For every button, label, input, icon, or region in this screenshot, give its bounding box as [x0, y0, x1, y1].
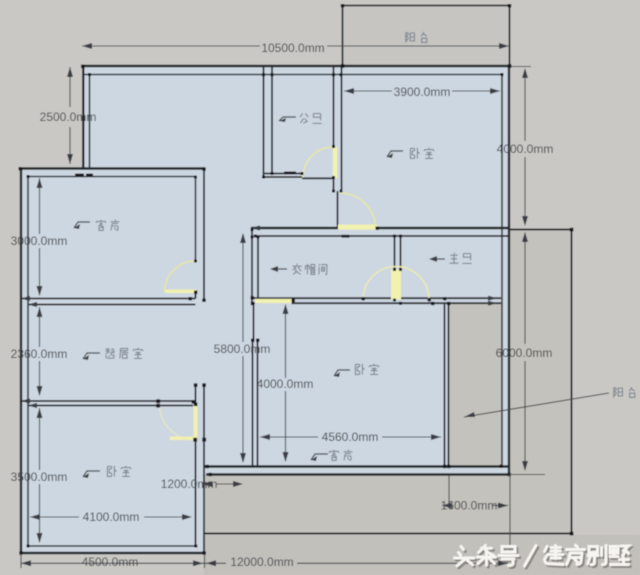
- svg-text:4100.0mm: 4100.0mm: [83, 510, 140, 524]
- svg-text:10500.0mm: 10500.0mm: [261, 41, 324, 55]
- svg-text:3000.0mm: 3000.0mm: [11, 234, 68, 248]
- svg-text:3900.0mm: 3900.0mm: [394, 85, 451, 99]
- svg-text:5800.0mm: 5800.0mm: [214, 342, 271, 356]
- svg-text:4560.0mm: 4560.0mm: [322, 430, 379, 444]
- svg-text:2360.0mm: 2360.0mm: [11, 347, 68, 361]
- svg-text:2500.0mm: 2500.0mm: [40, 110, 97, 124]
- svg-text:6000.0mm: 6000.0mm: [496, 346, 553, 360]
- svg-text:4000.0mm: 4000.0mm: [497, 142, 554, 156]
- svg-text:12000.0mm: 12000.0mm: [230, 555, 293, 569]
- svg-text:1600.0mm: 1600.0mm: [441, 499, 498, 513]
- svg-text:3500.0mm: 3500.0mm: [11, 470, 68, 484]
- svg-text:1200.0mm: 1200.0mm: [161, 477, 218, 491]
- svg-text:4000.0mm: 4000.0mm: [257, 377, 314, 391]
- svg-text:4500.0mm: 4500.0mm: [82, 555, 139, 569]
